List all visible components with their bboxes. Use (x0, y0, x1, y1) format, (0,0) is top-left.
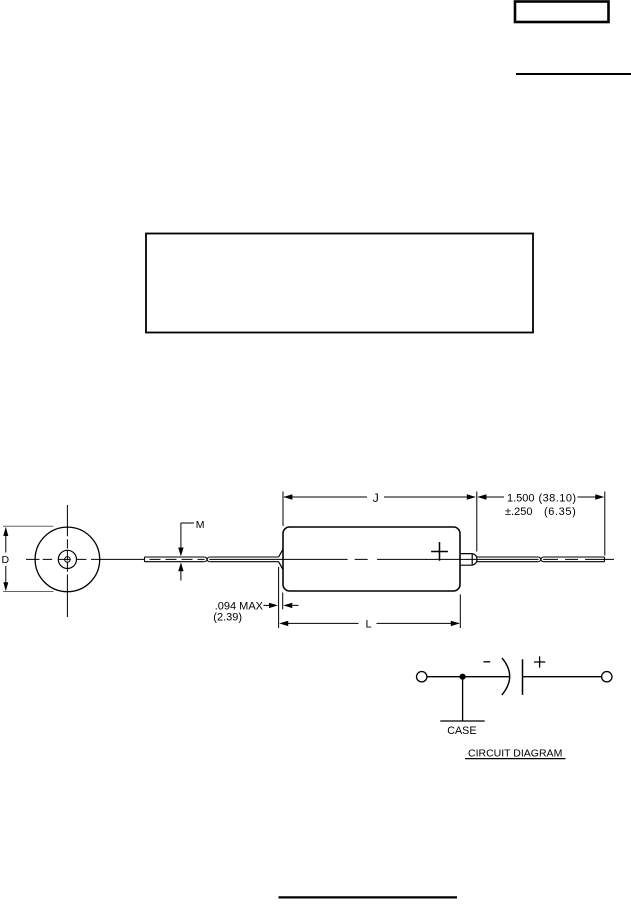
svg-text:1.500: 1.500 (507, 493, 535, 505)
svg-text:(2.39): (2.39) (213, 611, 242, 623)
svg-text:±.250: ±.250 (505, 506, 532, 518)
svg-text:CASE: CASE (447, 725, 476, 737)
svg-text:D: D (2, 554, 10, 566)
svg-text:M: M (196, 519, 205, 531)
svg-text:J: J (373, 491, 379, 505)
svg-text:(38.10): (38.10) (539, 493, 577, 505)
svg-text:L: L (366, 619, 372, 631)
svg-text:(6.35): (6.35) (544, 506, 576, 518)
svg-text:CIRCUIT DIAGRAM: CIRCUIT DIAGRAM (468, 747, 562, 759)
